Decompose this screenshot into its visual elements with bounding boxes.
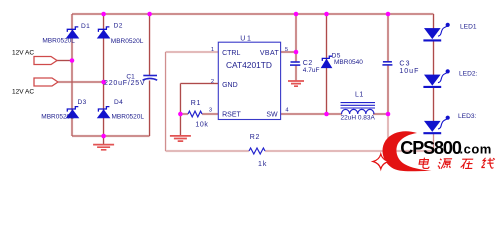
svg-text:.com: .com bbox=[460, 142, 492, 157]
svg-text:3: 3 bbox=[209, 108, 212, 114]
svg-text:LED3:: LED3: bbox=[458, 113, 476, 120]
svg-text:LED1: LED1 bbox=[460, 24, 477, 31]
svg-text:C3: C3 bbox=[399, 61, 410, 68]
svg-text:10k: 10k bbox=[195, 122, 208, 129]
svg-text:L1: L1 bbox=[355, 91, 364, 98]
svg-text:12V AC: 12V AC bbox=[12, 49, 34, 56]
svg-text:MBR0520L: MBR0520L bbox=[41, 114, 74, 121]
svg-text:MBR0520L: MBR0520L bbox=[42, 38, 75, 45]
svg-text:LED2:: LED2: bbox=[459, 71, 477, 78]
svg-text:SW: SW bbox=[266, 111, 278, 118]
svg-text:D4: D4 bbox=[114, 99, 123, 106]
svg-text:22uH 0.83A: 22uH 0.83A bbox=[341, 115, 376, 122]
svg-text:RSET: RSET bbox=[222, 111, 241, 118]
svg-text:2: 2 bbox=[211, 79, 214, 85]
svg-text:1k: 1k bbox=[258, 161, 267, 168]
svg-text:CAT4201TD: CAT4201TD bbox=[226, 60, 272, 70]
svg-text:CPS800: CPS800 bbox=[400, 138, 462, 158]
svg-text:1: 1 bbox=[211, 47, 214, 53]
svg-text:4: 4 bbox=[285, 108, 289, 114]
svg-text:MBR0520L: MBR0520L bbox=[111, 38, 144, 45]
svg-text:MBR0520L: MBR0520L bbox=[112, 114, 145, 121]
svg-text:MBR0540: MBR0540 bbox=[334, 59, 363, 66]
svg-text:U1: U1 bbox=[240, 35, 252, 42]
svg-text:D1: D1 bbox=[81, 23, 90, 30]
svg-text:R2: R2 bbox=[250, 134, 260, 141]
svg-text:R1: R1 bbox=[191, 100, 201, 107]
svg-text:D2: D2 bbox=[114, 22, 123, 29]
svg-text:CTRL: CTRL bbox=[222, 50, 240, 57]
svg-text:10uF: 10uF bbox=[399, 68, 419, 75]
svg-text:220uF/25V: 220uF/25V bbox=[104, 80, 145, 87]
svg-text:GND: GND bbox=[222, 82, 238, 89]
svg-text:5: 5 bbox=[285, 47, 288, 53]
svg-text:12V AC: 12V AC bbox=[12, 89, 34, 96]
svg-text:D3: D3 bbox=[78, 99, 87, 106]
svg-text:4.7uF: 4.7uF bbox=[303, 67, 320, 74]
svg-text:VBAT: VBAT bbox=[260, 50, 280, 57]
